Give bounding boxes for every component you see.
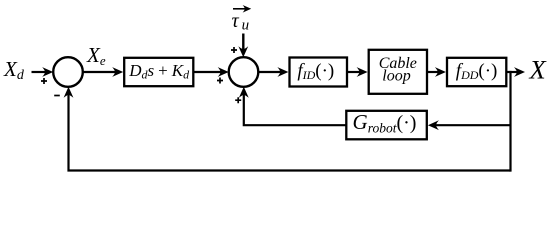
wire G_robot output to S2 bottom	[244, 94, 346, 125]
block f_ID	[290, 58, 348, 87]
wire S1 to block Dd s + Kd	[83, 71, 116, 73]
wire branch to G_robot input	[435, 124, 510, 126]
node Xd label	[3, 57, 25, 83]
wire f_ID to block Cable loop	[347, 71, 361, 73]
node tau_u label with vector arrow	[232, 5, 252, 34]
sign - at S1 bottom input	[54, 95, 60, 97]
wire Xd to summing junction S1	[32, 71, 47, 73]
wire block Dd to summing junction S2	[193, 71, 221, 73]
block Cable loop	[369, 50, 427, 94]
wire Cable loop to block f_DD	[427, 71, 439, 73]
svg-text:loop: loop	[382, 67, 410, 84]
wire f_DD to output X	[506, 71, 518, 73]
sign + at S2 bottom input	[235, 97, 241, 103]
wire tau_u input arrow into S2 top	[242, 34, 244, 51]
wire outer feedback bottom loop	[69, 94, 511, 171]
block f_DD	[447, 58, 506, 86]
block G_robot	[346, 110, 427, 139]
wire output branch down	[509, 71, 511, 172]
svg-text:X: X	[529, 55, 548, 85]
summing junction S2	[229, 57, 259, 87]
wire S2 to block f_ID	[258, 71, 281, 73]
svg-text:Dds+Kd: Dds+Kd	[128, 61, 190, 82]
sign + at S2 left input	[217, 78, 223, 84]
summing junction S1	[53, 57, 83, 87]
block Dd s + Kd	[124, 58, 193, 86]
sign + at S2 top input	[231, 47, 237, 53]
sign + at S1 left input	[41, 78, 47, 84]
